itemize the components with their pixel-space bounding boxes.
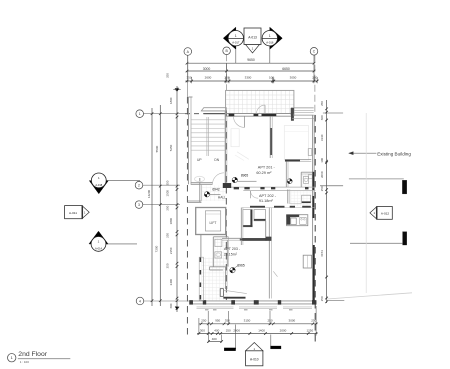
bedroom inner wall dark line above window [223, 297, 245, 299]
balcony right wall lower part [293, 114, 295, 117]
APT203 bedroom left wall upper [226, 241, 228, 267]
bottom dim row 3 (400) [209, 341, 222, 343]
balcony walls [226, 90, 294, 113]
grid line 1 (horizontal) [143, 113, 185, 115]
svg-text:APT 202 -: APT 202 - [259, 194, 277, 198]
window jamb dark [291, 108, 293, 120]
section cut thick bar left [224, 348, 235, 351]
witness lines from grid circles to dims [187, 55, 189, 82]
svg-text:250: 250 [166, 205, 170, 210]
right wall dark segment middle [312, 196, 314, 218]
svg-text:2000: 2000 [233, 328, 240, 332]
dark connector at top of bedroom wall [266, 237, 271, 241]
elevation marker A-010 [246, 343, 263, 351]
APT 201 closet wall dark segment [285, 160, 300, 162]
svg-text:300: 300 [200, 328, 205, 332]
svg-text:A-012: A-012 [381, 212, 390, 216]
bottom dim row 2 [197, 333, 318, 335]
APT 202 long wall with door gaps [242, 207, 315, 209]
svg-text:1250: 1250 [306, 328, 313, 332]
top-left wall stub [188, 96, 192, 98]
stair center divider [206, 117, 208, 156]
svg-text:1800: 1800 [169, 97, 173, 104]
stair top wall [201, 110, 226, 112]
bottom wall window sills [197, 306, 234, 308]
bedroom divider wall [222, 237, 242, 239]
APT 201 bathroom fixtures [303, 177, 308, 184]
left dim chain 5500/1500/7200 [159, 105, 161, 306]
svg-text:350: 350 [225, 319, 230, 323]
svg-text:APT 203 -: APT 203 - [224, 247, 241, 251]
APT 201 entry door swing arc [233, 116, 244, 127]
svg-text:7200: 7200 [155, 245, 159, 252]
wall below balcony [226, 113, 294, 115]
hall floor tile hatch [202, 186, 226, 202]
elevation marker A-014 (looking up) [91, 243, 138, 245]
grid line C (vertical dashed) [314, 55, 316, 115]
svg-text:60.29 m²: 60.29 m² [256, 171, 272, 175]
existing building faint outline vertical [365, 113, 367, 293]
svg-text:91.18m²: 91.18m² [259, 199, 274, 203]
svg-text:2060: 2060 [320, 171, 324, 178]
APT 203 bathroom sink [215, 239, 222, 246]
svg-text:A-014: A-014 [95, 246, 102, 250]
APT 201 faint furniture diagonals [237, 152, 249, 160]
APT 201 wall vertical to divider [285, 161, 287, 187]
hall bottom wall [188, 200, 202, 202]
view title bubble [8, 354, 16, 362]
svg-text:14200: 14200 [147, 189, 151, 198]
APT 201 entry door dark jamb [229, 114, 235, 117]
svg-text:600: 600 [169, 303, 173, 308]
APT 202 closet top right [302, 195, 311, 203]
APT 201 bathroom tile hatch [302, 175, 313, 187]
grid line 3 stub [142, 204, 180, 206]
svg-text:28.15m²: 28.15m² [224, 253, 238, 257]
view title underline [18, 358, 71, 360]
svg-text:250: 250 [166, 73, 170, 78]
existing building leader arrow [352, 152, 377, 154]
svg-text:8965: 8965 [237, 263, 245, 267]
balcony floor tile hatch [226, 90, 294, 113]
grid bubble 1 [136, 110, 144, 118]
wall step below bathroom [210, 266, 227, 268]
svg-text:DN: DN [214, 158, 219, 162]
svg-text:1500: 1500 [166, 190, 170, 197]
dark jamb at stair door corner [223, 183, 231, 188]
dining nook wall [265, 221, 267, 239]
bottom dim row 1 [199, 323, 318, 325]
APT 203 bathroom tile hatch [214, 238, 228, 266]
small door diagonal second bedroom [273, 271, 277, 276]
grid line 4 stub [144, 300, 191, 302]
lift shaft walls [196, 208, 226, 235]
svg-text:LIFT: LIFT [210, 221, 217, 225]
svg-text:APT 201 -: APT 201 - [258, 166, 276, 170]
svg-text:A-010: A-010 [250, 357, 259, 361]
svg-text:250: 250 [201, 319, 206, 323]
small fixture on right wall [308, 149, 312, 156]
left dim chain overall 14200 [151, 108, 153, 306]
stair door swing arc [213, 173, 225, 185]
svg-text:400: 400 [212, 337, 217, 341]
existing building wall line lower [350, 242, 403, 244]
svg-text:950: 950 [215, 319, 220, 323]
right dim chain [326, 100, 328, 303]
APT 203 bathroom wc [215, 252, 222, 258]
bedroom door leaf [220, 289, 223, 297]
stair right wall [224, 111, 226, 184]
svg-text:2600: 2600 [205, 76, 212, 80]
APT 203 kitchen floor tile hatch [202, 258, 227, 301]
APT201/202 divider wall [227, 186, 316, 188]
grid bubble 4 [136, 297, 144, 305]
top dimension row 3000 / 6650 [187, 70, 314, 72]
door tag 8965 bottom spot marker [230, 268, 235, 273]
right chain extension lines [323, 112, 343, 114]
svg-text:1400: 1400 [258, 328, 265, 332]
balcony sliding door dark segments [254, 114, 259, 116]
svg-text:2nd Floor: 2nd Floor [18, 351, 47, 358]
stair landing smudge [195, 176, 205, 181]
svg-text:3: 3 [138, 203, 140, 207]
grid bubble B [223, 47, 231, 55]
bottom outer wall [190, 300, 316, 302]
APT 202 entry closet [243, 210, 253, 227]
APT 203 kitchen counter strip [199, 257, 203, 300]
svg-text:250: 250 [312, 76, 317, 80]
balcony door swing arc [257, 105, 266, 114]
APT 201 bathroom walls [301, 171, 312, 173]
right wall dark segment lower [313, 245, 315, 302]
section line vertical right [270, 335, 272, 348]
svg-text:250: 250 [320, 296, 324, 301]
svg-text:3300: 3300 [245, 76, 252, 80]
grid line B (vertical dashed) [226, 54, 228, 90]
APT 202 wall below divider [287, 189, 289, 203]
dashed dark wall marks along counter [199, 258, 201, 301]
stair block left wall [187, 97, 189, 184]
spot marker APT201 [287, 179, 292, 184]
APT 203 bathroom walls [212, 237, 214, 267]
svg-text:3150: 3150 [244, 319, 251, 323]
svg-text:5500: 5500 [155, 145, 159, 152]
divider wall dark dash segments [234, 187, 239, 189]
section cut thick bar right [271, 346, 282, 349]
bedroom divider wall top band dark [240, 238, 266, 240]
svg-text:A-018: A-018 [95, 183, 102, 187]
svg-text:6153: 6153 [320, 250, 324, 257]
door tag 6942 spot marker [204, 192, 209, 197]
wall below lift [200, 235, 202, 258]
APT 202 entry door swing [251, 191, 259, 199]
APT 202 bathroom tile hatch [291, 191, 314, 206]
bedroom door swing line [223, 290, 246, 293]
elevation marker A-018 (looking down) [91, 180, 141, 182]
inner face line right of window [292, 117, 315, 119]
bottom wall dark jambs [190, 300, 193, 304]
svg-text:600: 600 [320, 115, 324, 120]
APT 201 faint closet outline left [231, 129, 239, 147]
svg-text:6942: 6942 [212, 188, 220, 192]
APT 202 wall vertical at entry [240, 208, 242, 246]
svg-text:9650: 9650 [247, 58, 255, 62]
svg-text:1800: 1800 [169, 218, 173, 225]
section marker A-016 with right arrow [269, 46, 271, 63]
svg-text:A-013: A-013 [248, 35, 257, 39]
svg-text:5250: 5250 [169, 144, 173, 151]
svg-text:1: 1 [139, 112, 141, 116]
grid line 2 stub [142, 184, 180, 186]
svg-text:1 : 100: 1 : 100 [20, 360, 30, 364]
top dimension row overall 9650 [187, 62, 314, 64]
door tag 8965 top spot marker [232, 177, 237, 182]
svg-text:1: 1 [269, 34, 271, 38]
svg-text:250: 250 [166, 233, 170, 238]
existing building dark pier upper [402, 180, 406, 194]
svg-text:HALL: HALL [218, 195, 226, 199]
chamfered parapet above stair [201, 108, 226, 111]
svg-text:UP: UP [197, 158, 202, 162]
svg-text:Existing Building: Existing Building [377, 151, 411, 156]
callout marker A-011 [65, 206, 83, 219]
APT 202 kitchen stove [300, 218, 307, 225]
svg-text:250: 250 [320, 101, 324, 106]
top-right window wall [291, 107, 314, 109]
bedroom wardrobe right [303, 255, 311, 268]
bottom wall mullion marks [205, 309, 209, 311]
bedroom separating wall vertical [268, 208, 270, 299]
svg-text:250: 250 [166, 263, 170, 268]
svg-text:250: 250 [166, 180, 170, 185]
lift car [205, 211, 220, 231]
spot marker leader line [238, 180, 257, 182]
svg-text:A-016: A-016 [266, 41, 274, 45]
grid bubble C [310, 48, 318, 56]
svg-text:400: 400 [214, 328, 219, 332]
existing building wall line upper [349, 178, 404, 180]
existing building dark pier lower [403, 232, 407, 245]
svg-text:3000: 3000 [289, 319, 296, 323]
callout marker A-013 [244, 28, 261, 45]
APT 202 kitchen sink [291, 218, 296, 225]
svg-text:2400: 2400 [169, 279, 173, 286]
stair treads [191, 120, 226, 150]
svg-text:3050: 3050 [290, 76, 297, 80]
grid bubble A [184, 48, 192, 56]
APT 202 shower cabin [254, 210, 266, 221]
svg-text:350: 350 [186, 76, 191, 80]
svg-text:1: 1 [235, 34, 237, 38]
svg-text:3000: 3000 [203, 67, 211, 71]
svg-text:250: 250 [226, 328, 231, 332]
grid line A (vertical dashed) [187, 55, 189, 97]
right wall dark segment upper [312, 172, 314, 190]
left dim chain detailed [176, 86, 178, 312]
APT203 bedroom left wall lower [224, 267, 226, 289]
APT 201 faint bed outline [284, 126, 308, 160]
svg-text:250: 250 [320, 186, 324, 191]
top dimension row detailed [186, 80, 318, 82]
grid bubble 3 [135, 201, 143, 209]
svg-text:2000: 2000 [280, 328, 287, 332]
APT 201 interior wall vertical [269, 117, 271, 159]
bottom witness lines [207, 311, 209, 335]
svg-text:8965: 8965 [241, 173, 249, 177]
callout marker A-012 [377, 207, 393, 220]
section line vertical left with thick bar [235, 325, 237, 350]
svg-text:A-011: A-011 [69, 211, 77, 215]
svg-text:2: 2 [138, 184, 140, 188]
svg-text:4: 4 [139, 299, 141, 303]
section marker A-017 with left arrow [235, 46, 237, 63]
grid bubble 2 [135, 181, 143, 189]
svg-text:A-017: A-017 [232, 41, 240, 45]
APT 202 kitchen counter [287, 215, 308, 226]
svg-text:2150: 2150 [169, 247, 173, 254]
svg-text:100: 100 [320, 157, 324, 162]
APT 201 closet wall horizontal [285, 159, 311, 161]
hall left wall [199, 178, 201, 202]
svg-text:6650: 6650 [282, 67, 290, 71]
stair bottom wall with door opening [191, 182, 213, 184]
building right wall [312, 115, 314, 301]
site boundary faint line bottom right [327, 293, 412, 299]
svg-text:3130: 3130 [320, 134, 324, 141]
